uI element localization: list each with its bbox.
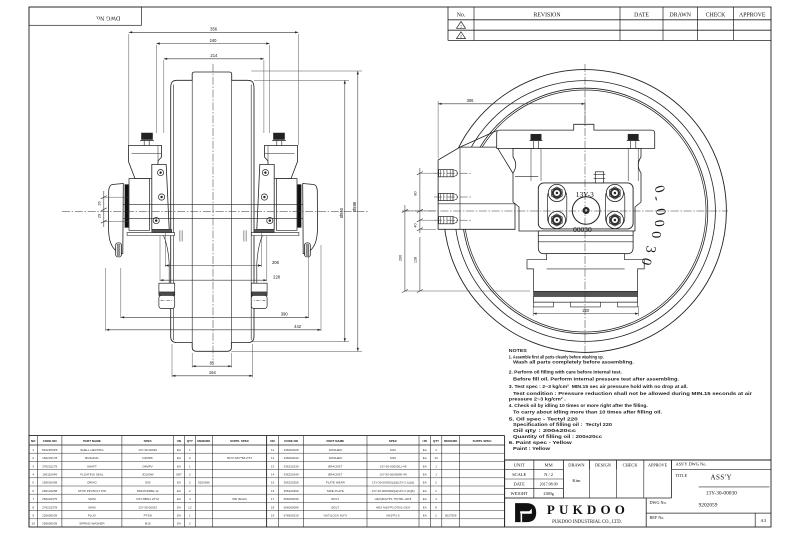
svg-text:0: 0 xyxy=(648,231,663,238)
svg-text:BOLT: BOLT xyxy=(331,505,339,509)
svg-text:666000039: 666000039 xyxy=(284,497,299,501)
svg-text:16: 16 xyxy=(271,489,275,493)
stuffing box R (seal housing) xyxy=(277,179,298,231)
svg-text:13Y-30-00030: 13Y-30-00030 xyxy=(138,448,157,452)
svg-text:TITLE: TITLE xyxy=(676,473,688,478)
centerline horizontal (left view shaft axis) xyxy=(62,211,368,213)
yoke lip L xyxy=(108,184,123,254)
svg-text:EA: EA xyxy=(423,473,427,477)
wear plate feet xyxy=(534,302,554,307)
svg-text:ORING: ORING xyxy=(87,481,98,485)
svg-text:D634S/D95E-12: D634S/D95E-12 xyxy=(137,489,159,493)
svg-text:WASHER: WASHER xyxy=(329,448,343,452)
extension lines for diameters xyxy=(254,79,349,81)
svg-text:EA: EA xyxy=(423,448,427,452)
svg-text:306: 306 xyxy=(467,98,475,103)
svg-text:2380g: 2380g xyxy=(543,491,554,496)
svg-text:200: 200 xyxy=(399,255,403,261)
rim flange L retainer xyxy=(159,295,175,308)
svg-text:11: 11 xyxy=(271,448,274,452)
svg-text:Ø598: Ø598 xyxy=(352,201,357,212)
wheel rim circle xyxy=(455,81,716,342)
stop pin plate xyxy=(538,183,633,229)
svg-text:226600039: 226600039 xyxy=(42,514,57,518)
svg-text:SIDE PLATE: SIDE PLATE xyxy=(327,489,344,493)
svg-text:NUT(LOCK NUT): NUT(LOCK NUT) xyxy=(324,514,347,518)
svg-text:M16: M16 xyxy=(390,456,396,460)
svg-text:256222375: 256222375 xyxy=(42,497,57,501)
dimension 206 xyxy=(165,265,261,267)
svg-text:SHAFT: SHAFT xyxy=(87,464,97,468)
svg-text:256600039: 256600039 xyxy=(42,522,57,526)
svg-text:PT3/8: PT3/8 xyxy=(144,514,152,518)
bolt BL1 (top mounting bolt) xyxy=(142,133,153,140)
svg-text:EA: EA xyxy=(423,514,427,518)
svg-text:EA: EA xyxy=(423,481,427,485)
bracket lower neck xyxy=(527,254,644,292)
rim flange L hatched strip xyxy=(159,292,174,296)
svg-text:CHECK: CHECK xyxy=(706,12,726,18)
svg-text:SHIM: SHIM xyxy=(88,505,96,509)
svg-text:Ø550: Ø550 xyxy=(339,207,344,218)
svg-text:REMARK: REMARK xyxy=(444,439,458,443)
svg-text:ASS'Y: ASS'Y xyxy=(710,474,732,482)
revision triangle 2 xyxy=(457,32,466,39)
svg-text:N / 2: N / 2 xyxy=(544,472,553,477)
arm gusset line xyxy=(460,131,497,148)
svg-text:12: 12 xyxy=(188,505,192,509)
wear plate rail xyxy=(534,296,638,302)
svg-text:SUPPL SPEC: SUPPL SPEC xyxy=(473,439,493,443)
svg-text:18: 18 xyxy=(271,505,275,509)
svg-text:MM: MM xyxy=(545,463,553,468)
svg-text:4. Check oil by idling 10 time: 4. Check oil by idling 10 times or more … xyxy=(509,403,648,408)
extension lines lower dims xyxy=(164,231,166,267)
dimension 128 xyxy=(419,237,421,291)
svg-text:00030: 00030 xyxy=(573,225,592,234)
svg-text:6. Paint spec - Yellow: 6. Paint spec - Yellow xyxy=(509,440,573,445)
svg-text:Kim: Kim xyxy=(572,478,581,483)
bolt hole R at 220.6 xyxy=(267,218,273,224)
rim flange R block xyxy=(251,283,267,295)
svg-text:PUKDOO INDUSTRIAL CO., LTD.: PUKDOO INDUSTRIAL CO., LTD. xyxy=(552,520,622,525)
svg-text:SHIM: SHIM xyxy=(88,497,96,501)
svg-text:PUKDOO: PUKDOO xyxy=(547,502,629,517)
dimension d550 xyxy=(344,80,346,341)
svg-text:DWG No.: DWG No. xyxy=(650,500,667,505)
svg-text:SPRING WASHER: SPRING WASHER xyxy=(79,522,105,526)
extension lines 26/29 xyxy=(104,196,129,198)
svg-text:9202696: 9202696 xyxy=(198,481,210,485)
svg-text:13Y-30-00035(L)[&]13Y-2 (L)[&]: 13Y-30-00035(L)[&]13Y-2 (L)[&] xyxy=(372,481,414,485)
svg-text:REVISION: REVISION xyxy=(533,12,561,18)
svg-text:9202059: 9202059 xyxy=(699,503,718,509)
svg-text:HEX M16*P2.0*50L-G8.8: HEX M16*P2.0*50L-G8.8 xyxy=(376,505,410,509)
svg-text:D6Y-68811 2P M: D6Y-68811 2P M xyxy=(136,497,159,501)
svg-text:NO: NO xyxy=(31,439,36,443)
svg-text:220: 220 xyxy=(582,308,590,313)
svg-text:JD100W: JD100W xyxy=(142,473,154,477)
yoke lip R xyxy=(303,184,318,254)
rim flange R retainer xyxy=(251,295,267,308)
plate slot R xyxy=(606,188,625,228)
svg-text:166223178: 166223178 xyxy=(42,456,57,460)
svg-text:REF No.: REF No. xyxy=(650,515,665,520)
svg-text:pressure 2~3 kg/cm² .: pressure 2~3 kg/cm² . xyxy=(509,397,566,402)
svg-text:M12: M12 xyxy=(390,448,396,452)
svg-text:SPEC: SPEC xyxy=(389,439,398,443)
DWG No corner box xyxy=(29,7,141,25)
svg-text:PLATE WEAR: PLATE WEAR xyxy=(326,481,346,485)
svg-text:STOP PIN BOLT PIN: STOP PIN BOLT PIN xyxy=(78,489,106,493)
arm-body step line xyxy=(515,176,538,178)
svg-text:29: 29 xyxy=(98,214,102,218)
shim stack R xyxy=(245,230,247,241)
bolt channel lines 633.2 xyxy=(627,148,629,181)
svg-text:164: 164 xyxy=(209,370,217,375)
dimension 220 xyxy=(533,313,638,315)
svg-text:NO: NO xyxy=(270,439,275,443)
svg-text:SET: SET xyxy=(176,473,182,477)
svg-text:UN: UN xyxy=(423,439,427,443)
svg-text:13Y-30-00033(L)-49: 13Y-30-00033(L)-49 xyxy=(380,464,407,468)
svg-text:Test condition : Pressure redu: Test condition : Pressure reduction shal… xyxy=(513,391,752,396)
svg-text:1: 1 xyxy=(460,24,462,28)
dimension 306 xyxy=(438,103,585,105)
bracket bolt at 633.2 xyxy=(628,134,638,140)
svg-text:WASHER: WASHER xyxy=(329,456,343,460)
shaft xyxy=(123,204,303,206)
bolt hole R at 172.6 xyxy=(262,170,268,176)
logo block xyxy=(645,498,647,527)
plate slot L xyxy=(548,188,567,228)
svg-text:DRAWN: DRAWN xyxy=(670,12,692,18)
svg-text:500 (Bush): 500 (Bush) xyxy=(232,497,247,501)
svg-text:NOTES: NOTES xyxy=(509,348,527,353)
svg-text:EA: EA xyxy=(177,514,181,518)
bolt plate R (3-bolt side plate) xyxy=(257,165,274,230)
dimension 228 xyxy=(160,279,267,281)
bolt plate L (3-bolt side plate) xyxy=(152,165,169,230)
svg-text:13Y-30-00036(R)-49: 13Y-30-00036(R)-49 xyxy=(379,473,407,477)
svg-text:356220259: 356220259 xyxy=(284,481,299,485)
mounting arm (yoke) xyxy=(438,147,515,229)
svg-text:13Y-30-00032: 13Y-30-00032 xyxy=(138,505,157,509)
svg-text:BRACKET: BRACKET xyxy=(328,473,342,477)
svg-text:Wash all parts completely befo: Wash all parts completely before assembl… xyxy=(513,359,634,364)
svg-text:QTY: QTY xyxy=(433,439,439,443)
svg-text:214: 214 xyxy=(210,53,218,58)
stud pin at 197.0 xyxy=(439,193,454,200)
svg-text:CODE NO: CODE NO xyxy=(284,439,299,443)
svg-text:13Y-30-00030: 13Y-30-00030 xyxy=(706,491,737,497)
svg-text:M16: M16 xyxy=(145,522,151,526)
svg-text:QTY: QTY xyxy=(187,439,193,443)
svg-text:G95: G95 xyxy=(145,481,151,485)
svg-text:5202253P6: 5202253P6 xyxy=(42,448,58,452)
svg-text:PLUG: PLUG xyxy=(88,514,97,518)
dimension 26 xyxy=(103,191,105,227)
svg-text:Before fill oil. Perform inter: Before fill oil. Perform internal pressu… xyxy=(513,377,679,382)
svg-text:246000229: 246000229 xyxy=(284,448,299,452)
svg-text:ASS'Y DWG No.: ASS'Y DWG No. xyxy=(676,462,707,467)
dimension 240 xyxy=(156,43,269,45)
bolt hole L at 220.6 xyxy=(153,218,159,224)
svg-text:Quantity of filling oil : 200±: Quantity of filling oil : 200±20cc xyxy=(513,434,603,439)
svg-text:REMARK: REMARK xyxy=(197,439,211,443)
central hub boss xyxy=(572,197,600,225)
svg-text:276222378: 276222378 xyxy=(42,505,57,509)
svg-text:SCALE: SCALE xyxy=(512,472,526,477)
svg-text:A3: A3 xyxy=(760,518,766,523)
parts table xyxy=(29,435,505,437)
svg-text:EA: EA xyxy=(423,489,427,493)
floating seal R (black) xyxy=(297,185,301,228)
svg-text:DATE: DATE xyxy=(634,12,649,18)
centerline vertical (left view) xyxy=(212,64,214,360)
socket bolt at 614.9,220.0 xyxy=(606,211,623,228)
svg-text:26: 26 xyxy=(98,201,102,205)
bracket L leg xyxy=(164,236,170,284)
svg-text:EA: EA xyxy=(177,497,181,501)
svg-text:No.: No. xyxy=(457,12,466,18)
svg-text:166110049: 166110049 xyxy=(42,473,57,477)
stud pin at 173.2 xyxy=(439,170,454,177)
bracket body xyxy=(513,148,641,231)
svg-text:D4MRK: D4MRK xyxy=(142,456,153,460)
svg-text:EA: EA xyxy=(177,489,181,493)
revision triangle 1 xyxy=(457,22,466,29)
svg-text:EA: EA xyxy=(177,456,181,460)
centerline vertical (right view) xyxy=(584,64,586,358)
bracket R top support block xyxy=(265,146,298,179)
svg-text:DATE: DATE xyxy=(514,482,526,487)
dimension 200 xyxy=(404,205,406,291)
svg-text:15: 15 xyxy=(271,481,275,485)
svg-text:10: 10 xyxy=(32,522,36,526)
floating seal L (black) xyxy=(125,185,129,228)
bracket R leg xyxy=(257,236,263,284)
svg-text:12: 12 xyxy=(271,456,275,460)
title block xyxy=(505,459,771,461)
dimension 356 xyxy=(129,31,299,33)
bolt hole L at 172.6 xyxy=(158,170,164,176)
svg-text:2. Perform oil filling with ca: 2. Perform oil filling with care before … xyxy=(509,369,622,374)
svg-text:442: 442 xyxy=(294,324,302,329)
bracket bolt at 536.0 xyxy=(531,134,541,140)
svg-text:SUPPL SPEC: SUPPL SPEC xyxy=(230,439,250,443)
dimension 390 xyxy=(121,316,309,318)
svg-text:676600319: 676600319 xyxy=(284,514,299,518)
arm plate line xyxy=(438,203,515,205)
wear strip L under bolt plate (hatched) xyxy=(152,230,172,233)
svg-text:BUSHING: BUSHING xyxy=(85,456,99,460)
svg-text:85: 85 xyxy=(210,361,215,366)
svg-text:EA: EA xyxy=(423,456,427,460)
svg-text:336220249: 336220249 xyxy=(284,473,299,477)
dimension 80 xyxy=(419,168,421,233)
svg-text:EA: EA xyxy=(177,481,181,485)
svg-text:CHECK: CHECK xyxy=(623,463,639,468)
svg-text:EA: EA xyxy=(177,505,181,509)
svg-text:128: 128 xyxy=(414,257,418,263)
bracket lower block xyxy=(538,231,633,254)
svg-text:PART NAME: PART NAME xyxy=(83,439,101,443)
svg-text:Paint : Yellow: Paint : Yellow xyxy=(513,446,551,451)
svg-text:D4MPV: D4MPV xyxy=(142,464,152,468)
svg-text:5073 S/67*68.2*67: 5073 S/67*68.2*67 xyxy=(227,456,253,460)
svg-text:CODE NO: CODE NO xyxy=(43,439,58,443)
dimension 220 xyxy=(532,306,534,316)
svg-text:BOLT: BOLT xyxy=(331,497,339,501)
svg-text:240: 240 xyxy=(210,38,218,43)
svg-text:14: 14 xyxy=(271,473,275,477)
svg-text:EA: EA xyxy=(177,464,181,468)
svg-text:13Y-30-00033(R)[&]13Y-2 (R)[&]: 13Y-30-00033(R)[&]13Y-2 (R)[&] xyxy=(372,489,415,493)
svg-text:DWG No.: DWG No. xyxy=(95,14,120,20)
svg-text:EA: EA xyxy=(423,497,427,501)
svg-text:246000043: 246000043 xyxy=(284,456,299,460)
svg-text:5027556: 5027556 xyxy=(445,514,457,518)
wheel outer circle xyxy=(444,70,727,353)
svg-text:WEIGHT: WEIGHT xyxy=(511,491,529,496)
svg-text:EA: EA xyxy=(177,448,181,452)
bolt hole R at 197.0 xyxy=(261,194,267,200)
dimension d598 xyxy=(357,71,359,351)
bracket top plate xyxy=(497,124,655,148)
svg-text:390: 390 xyxy=(281,312,289,317)
rim flange R hatched strip xyxy=(252,292,267,296)
socket bolt at 556.9,220.0 xyxy=(548,211,565,228)
svg-text:BRACKET: BRACKET xyxy=(328,464,342,468)
svg-text:336220239: 336220239 xyxy=(284,464,299,468)
svg-text:3. Test spec : 2~3 kg/cm² MIN: 3. Test spec : 2~3 kg/cm² MIN.15 sec air… xyxy=(509,384,688,389)
svg-text:0: 0 xyxy=(651,219,666,227)
tread circles (double) xyxy=(462,88,708,334)
svg-text:356220269: 356220269 xyxy=(284,489,299,493)
svg-text:376222179: 376222179 xyxy=(42,464,57,468)
revision table xyxy=(448,19,771,21)
svg-text:DRAWN: DRAWN xyxy=(568,463,585,468)
svg-text:266122258: 266122258 xyxy=(42,489,57,493)
bolt BR1 (top mounting bolt) xyxy=(274,133,285,140)
svg-text:PART NAME: PART NAME xyxy=(326,439,344,443)
bracket L top support block xyxy=(128,146,161,179)
shim stack L xyxy=(179,230,181,241)
dimension 442 xyxy=(106,329,321,331)
dimension 164 xyxy=(172,375,253,377)
svg-text:M16*P1.5: M16*P1.5 xyxy=(386,514,400,518)
svg-text:356: 356 xyxy=(210,27,218,32)
svg-text:Oil qty : 200±20cc: Oil qty : 200±20cc xyxy=(513,428,577,433)
wear strip R under bolt plate (hatched) xyxy=(254,230,274,233)
svg-text:206: 206 xyxy=(272,260,280,265)
svg-text:228: 228 xyxy=(273,275,281,280)
svg-text:17: 17 xyxy=(271,497,275,501)
svg-text:DESIGN: DESIGN xyxy=(595,463,612,468)
svg-text:APPROVE: APPROVE xyxy=(648,463,668,468)
bolt channel lines 536.0 xyxy=(530,148,532,181)
shell inner wall lines xyxy=(173,85,175,341)
centerline horizontal (right view) xyxy=(402,210,728,212)
stud pin at 220.2 xyxy=(439,217,454,224)
socket bolt at 556.9,193.0 xyxy=(548,184,565,201)
extension lines right view xyxy=(437,101,439,158)
grease fitting stud xyxy=(595,172,603,183)
svg-text:To carry about idling more tha: To carry about idling more than 10 times… xyxy=(513,409,662,414)
svg-text:10: 10 xyxy=(434,456,438,460)
dimension 214 xyxy=(164,58,264,60)
bracket L bottom plate xyxy=(127,233,175,236)
svg-text:EA: EA xyxy=(423,505,427,509)
svg-text:UN: UN xyxy=(177,439,181,443)
extension lines top xyxy=(128,34,130,145)
svg-text:2017.08.09: 2017.08.09 xyxy=(540,482,558,487)
svg-text:2: 2 xyxy=(460,35,462,39)
yoke lip tip R (bushing tab) xyxy=(305,243,311,257)
svg-text:SPEC: SPEC xyxy=(144,439,153,443)
svg-text:156602409: 156602409 xyxy=(42,481,57,485)
yoke lip tip L (bushing tab) xyxy=(116,243,122,257)
PUKDOO logo mark (black D with white P cut) xyxy=(515,503,536,522)
ext lines 80/40/200/128 xyxy=(420,172,436,174)
idler shell section outline xyxy=(171,72,254,351)
svg-text:19: 19 xyxy=(271,514,275,518)
svg-text:EA: EA xyxy=(177,522,181,526)
svg-text:UNIT: UNIT xyxy=(514,463,525,468)
svg-text:EA: EA xyxy=(423,464,427,468)
svg-text:Specification of filling oil :: Specification of filling oil : Tectyl 22… xyxy=(513,422,613,427)
svg-text:FLOATING SEAL: FLOATING SEAL xyxy=(80,473,104,477)
svg-text:80: 80 xyxy=(414,191,418,195)
svg-text:SHELL HEATING: SHELL HEATING xyxy=(80,448,104,452)
svg-text:666000099: 666000099 xyxy=(284,505,299,509)
svg-text:APPROVE: APPROVE xyxy=(739,12,766,18)
rim flange L block xyxy=(159,283,175,295)
bolt hole L at 197.0 xyxy=(159,194,165,200)
bracket R bottom plate xyxy=(251,233,299,236)
dimension 85 xyxy=(192,365,232,367)
wear plate hatched band xyxy=(534,291,638,296)
svg-text:13: 13 xyxy=(271,464,275,468)
stuffing box L (seal housing) xyxy=(129,179,150,231)
svg-text:5. Oil spec - Tectyl 220: 5. Oil spec - Tectyl 220 xyxy=(509,417,579,422)
svg-text:HEX(M12*P1.75)*45L-G8.8: HEX(M12*P1.75)*45L-G8.8 xyxy=(375,497,412,501)
svg-text:40: 40 xyxy=(414,223,418,227)
socket bolt at 614.9,193.0 xyxy=(606,184,623,201)
